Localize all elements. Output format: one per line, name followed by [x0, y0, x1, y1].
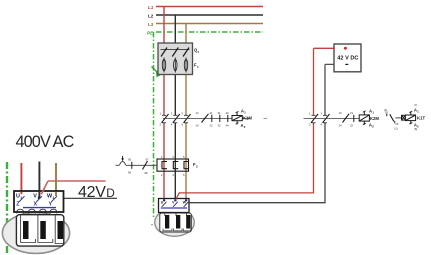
contactor K2M main contacts [311, 114, 330, 123]
svg-text:13: 13 [196, 111, 200, 115]
wire control row 2 [304, 118, 360, 120]
wire inset leader black [64, 197, 118, 199]
wire L3 bus [156, 23, 263, 25]
star bridge inset (blue) [23, 207, 56, 209]
svg-text:X: X [34, 202, 38, 208]
wire stub after K1M [264, 117, 268, 119]
ground PE arrow [152, 67, 158, 73]
terminal tick F2 95-96 [131, 162, 133, 169]
wire L1 bus [156, 6, 263, 8]
terminal tick row 2 [353, 115, 355, 122]
wire inset brake red jog [41, 181, 48, 194]
svg-text:44: 44 [226, 124, 230, 128]
svg-text:14: 14 [339, 124, 343, 128]
wire inset PE [6, 162, 8, 255]
wire L2 drop [174, 15, 176, 115]
svg-text:400V AC: 400V AC [16, 133, 75, 151]
terminal marks U V W [161, 200, 187, 204]
star bridge (blue) [161, 207, 187, 209]
terminal - dash [345, 63, 348, 65]
svg-text:22: 22 [350, 124, 354, 128]
svg-text:43: 43 [226, 111, 230, 115]
coil K1M [232, 111, 242, 124]
wire F2 trip linkage [116, 162, 158, 166]
wire inset L3 (brown) [55, 163, 57, 196]
svg-text:13: 13 [339, 111, 343, 115]
svg-text:L1: L1 [148, 5, 154, 10]
wire L1 drop [163, 7, 165, 116]
wire L3 drop [185, 24, 187, 116]
motor M1 body [155, 209, 195, 237]
breaker-fuse box Q1 F1 [158, 43, 193, 75]
svg-text:L2: L2 [148, 14, 154, 19]
terminal labels Z X Y [16, 202, 52, 208]
terminal box inset [14, 191, 64, 212]
breaker Q1 [161, 48, 190, 57]
svg-text:21: 21 [210, 111, 214, 115]
motor inset winding loops [21, 215, 64, 244]
svg-text:42 V DC: 42 V DC [337, 56, 358, 62]
wire PE bus [156, 31, 263, 33]
svg-text:18: 18 [385, 111, 389, 115]
svg-text:97: 97 [146, 158, 150, 162]
wire inset L1 (red) [20, 163, 22, 194]
motor M1 terminal bars [165, 215, 169, 229]
svg-text:22: 22 [210, 124, 214, 128]
motor inset bars [23, 221, 29, 239]
svg-text:95: 95 [128, 158, 132, 162]
svg-text:L3: L3 [148, 22, 154, 27]
motor M1 terminal insert [160, 213, 192, 232]
svg-text:31: 31 [218, 111, 222, 115]
wire brake + (red) [176, 123, 313, 199]
svg-text:K2M: K2M [370, 116, 379, 121]
wire inset L2 (black) [38, 162, 40, 199]
fuse F1 (three) [162, 58, 187, 73]
jumper diagonals [162, 202, 189, 207]
heater F2 elements [162, 162, 189, 169]
coil K2M [359, 111, 369, 125]
svg-text:21: 21 [350, 111, 354, 115]
svg-text:(1): (1) [394, 126, 397, 130]
motor M1 winding loops [163, 229, 191, 231]
svg-text:96: 96 [128, 171, 132, 175]
trip arrow F2 [122, 156, 124, 159]
timer K1T coil [402, 111, 416, 124]
svg-text:Y: Y [49, 202, 53, 208]
motor inset insert [16, 215, 63, 246]
svg-text:14: 14 [196, 124, 200, 128]
terminal + (red dot) [344, 47, 347, 50]
wire stubs into insert [165, 213, 187, 217]
svg-text:K1M: K1M [243, 116, 252, 121]
wire PE drop [153, 32, 155, 218]
motor M1 shaft mark [151, 224, 153, 226]
motor inset body [2, 213, 69, 254]
wire L2 bus [156, 14, 263, 16]
contact K1T timer changeover [387, 114, 402, 124]
contact K1M aux [202, 114, 209, 123]
power supply 42VDC box [334, 44, 361, 72]
wire brake - (gray) [189, 123, 325, 203]
svg-text:K1T: K1T [417, 116, 425, 121]
wire control row 1 [163, 117, 232, 119]
terminal ticks row 1 [212, 115, 228, 122]
winding loop arches [17, 209, 57, 213]
jumper diagonals inset [19, 196, 57, 202]
contact K1M aux numbers [196, 111, 230, 128]
svg-text:(8): (8) [414, 127, 417, 131]
overload relay F2 box [157, 159, 189, 171]
svg-text:98: 98 [145, 171, 149, 175]
terminal labels U1 V1 W1 [16, 194, 54, 201]
wire stubs inside inset box [20, 192, 22, 194]
contact F2 aux [143, 161, 148, 170]
contact K2M aux [343, 114, 350, 123]
svg-text:32: 32 [218, 124, 222, 128]
motor M1 terminal box [159, 199, 190, 213]
wire inset leader red [48, 180, 106, 182]
contactor K1M main contacts [162, 114, 191, 123]
